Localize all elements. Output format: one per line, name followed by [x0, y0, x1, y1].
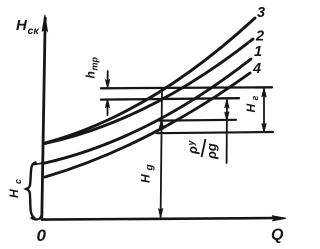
- dimension H_g (geometric head) line: [262, 88, 266, 132]
- label H_g geometric (rotated): [244, 96, 260, 113]
- y-axis: [42, 15, 48, 218]
- svg-text:Н: Н: [16, 17, 28, 34]
- curve 4: [45, 73, 250, 177]
- svg-text:Q: Q: [271, 227, 284, 244]
- curve 1: [45, 59, 251, 163]
- label H_c static (rotated): [7, 179, 23, 198]
- H_c level tick: [33, 162, 48, 164]
- origin corner hook: [32, 212, 43, 219]
- dimension h_tr lower arrow: [105, 99, 109, 115]
- operating ordinate / dimension H_d line: [159, 89, 164, 218]
- dimension rho_u/rho_g line: [225, 100, 229, 164]
- H_c brace: [26, 163, 35, 219]
- label h_tr (rotated): [84, 56, 100, 78]
- svg-text:Н: Н: [7, 189, 21, 198]
- svg-text:Н: Н: [139, 174, 153, 183]
- curve 2: [45, 39, 253, 144]
- label rho_u / rho_g (rotated fraction): [185, 139, 219, 160]
- svg-text:0: 0: [37, 226, 47, 245]
- svg-text:ρ: ρ: [185, 146, 200, 155]
- x-axis: [42, 216, 286, 221]
- svg-text:h: h: [84, 71, 98, 78]
- svg-text:g: g: [145, 164, 156, 171]
- svg-text:ск: ск: [28, 25, 40, 37]
- label H_d dynamic (rotated): [139, 164, 156, 183]
- svg-text:г: г: [250, 96, 260, 101]
- dimension h_tr upper arrow: [106, 71, 110, 88]
- svg-text:Н: Н: [244, 104, 258, 113]
- svg-text:3: 3: [257, 5, 265, 21]
- svg-text:1: 1: [254, 44, 262, 60]
- svg-text:4: 4: [252, 61, 261, 77]
- level line B (second horizontal): [101, 98, 239, 99]
- svg-text:2: 2: [255, 29, 264, 45]
- svg-text:у: у: [186, 140, 196, 147]
- curve 3: [45, 18, 255, 143]
- level line C (fourth horizontal): [157, 132, 274, 133]
- svg-text:ρg: ρg: [204, 143, 219, 160]
- svg-text:с: с: [13, 179, 23, 184]
- level line A (top horizontal): [101, 87, 272, 88]
- svg-text:тр: тр: [90, 56, 100, 70]
- level line B2 (third horizontal, from ordinate): [159, 119, 236, 122]
- axis label H_ck: [16, 17, 39, 37]
